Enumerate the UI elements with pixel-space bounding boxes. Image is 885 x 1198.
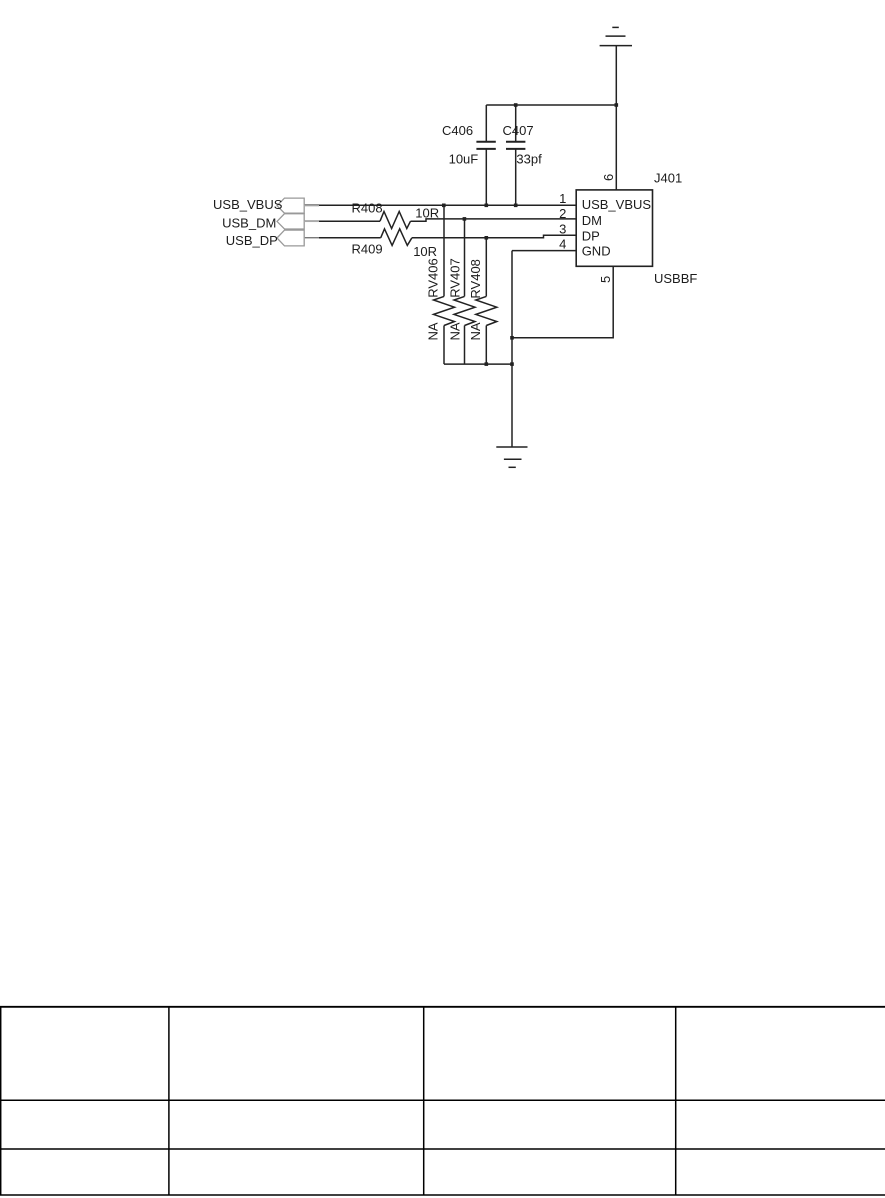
wire: ground vertical	[511, 251, 513, 447]
svg-text:GND: GND	[582, 244, 611, 259]
svg-text:R409: R409	[352, 241, 383, 256]
svg-text:2: 2	[559, 206, 566, 221]
svg-text:USBBF: USBBF	[654, 271, 697, 286]
table	[0, 1007, 885, 1195]
svg-text:USB_DM: USB_DM	[222, 215, 276, 230]
capacitor C406	[476, 105, 495, 205]
svg-text:4: 4	[559, 237, 566, 252]
wire: RV bottom bus	[444, 363, 512, 365]
resistor R408	[380, 212, 411, 229]
svg-text:10uF: 10uF	[449, 151, 479, 166]
resistor RV408	[476, 238, 497, 364]
svg-text:NA: NA	[448, 322, 463, 340]
junction	[485, 204, 489, 208]
svg-text:USB_VBUS: USB_VBUS	[213, 197, 283, 212]
wire: pin 2 net DM	[304, 220, 380, 222]
junction	[510, 336, 514, 340]
svg-text:J401: J401	[654, 171, 682, 186]
svg-text:USB_VBUS: USB_VBUS	[582, 197, 652, 212]
wire: top ground to J401 pin 6	[615, 46, 617, 190]
wire: R408 to pin 2	[411, 219, 577, 221]
svg-text:C406: C406	[442, 123, 473, 138]
resistor RV407	[454, 219, 475, 364]
capacitor C407	[506, 105, 525, 205]
svg-text:NA: NA	[426, 322, 441, 340]
wire: pin 3 net DP	[304, 237, 381, 239]
ground (top, flipped)	[600, 27, 632, 45]
port USB_DP	[277, 230, 319, 246]
junction	[514, 103, 518, 107]
port USB_DM	[277, 214, 319, 229]
svg-text:DP: DP	[582, 229, 600, 244]
wire: R409 to pin 3	[412, 235, 576, 238]
junction	[485, 362, 489, 366]
resistor R409	[381, 229, 412, 246]
svg-text:RV407: RV407	[448, 258, 463, 298]
junction	[615, 103, 619, 107]
svg-text:NA: NA	[468, 322, 483, 340]
junction	[442, 204, 446, 208]
svg-text:10R: 10R	[413, 244, 437, 259]
wire: pin 5 to ground	[512, 266, 613, 338]
junction	[485, 236, 489, 240]
svg-text:RV408: RV408	[468, 259, 483, 299]
svg-text:R408: R408	[352, 201, 383, 216]
svg-text:10R: 10R	[415, 205, 439, 220]
svg-text:5: 5	[598, 276, 613, 283]
svg-text:1: 1	[559, 191, 566, 206]
resistor RV406	[434, 205, 455, 364]
ground (bottom)	[496, 447, 527, 467]
port USB_VBUS	[277, 198, 319, 213]
junction	[510, 362, 514, 366]
svg-text:6: 6	[601, 174, 616, 181]
svg-text:DM: DM	[582, 213, 602, 228]
svg-text:RV406: RV406	[426, 258, 441, 298]
wire: top horizontal to capacitors	[486, 104, 616, 106]
svg-text:33pf: 33pf	[516, 151, 542, 166]
svg-text:USB_DP: USB_DP	[226, 233, 278, 248]
junction	[463, 217, 467, 221]
svg-text:C407: C407	[503, 123, 534, 138]
wire: pin 4 net GND	[512, 250, 576, 252]
connector J401 box	[576, 190, 652, 266]
svg-text:3: 3	[559, 221, 566, 236]
wire: pin 1 net USB_VBUS	[304, 204, 576, 206]
junction	[514, 204, 518, 208]
